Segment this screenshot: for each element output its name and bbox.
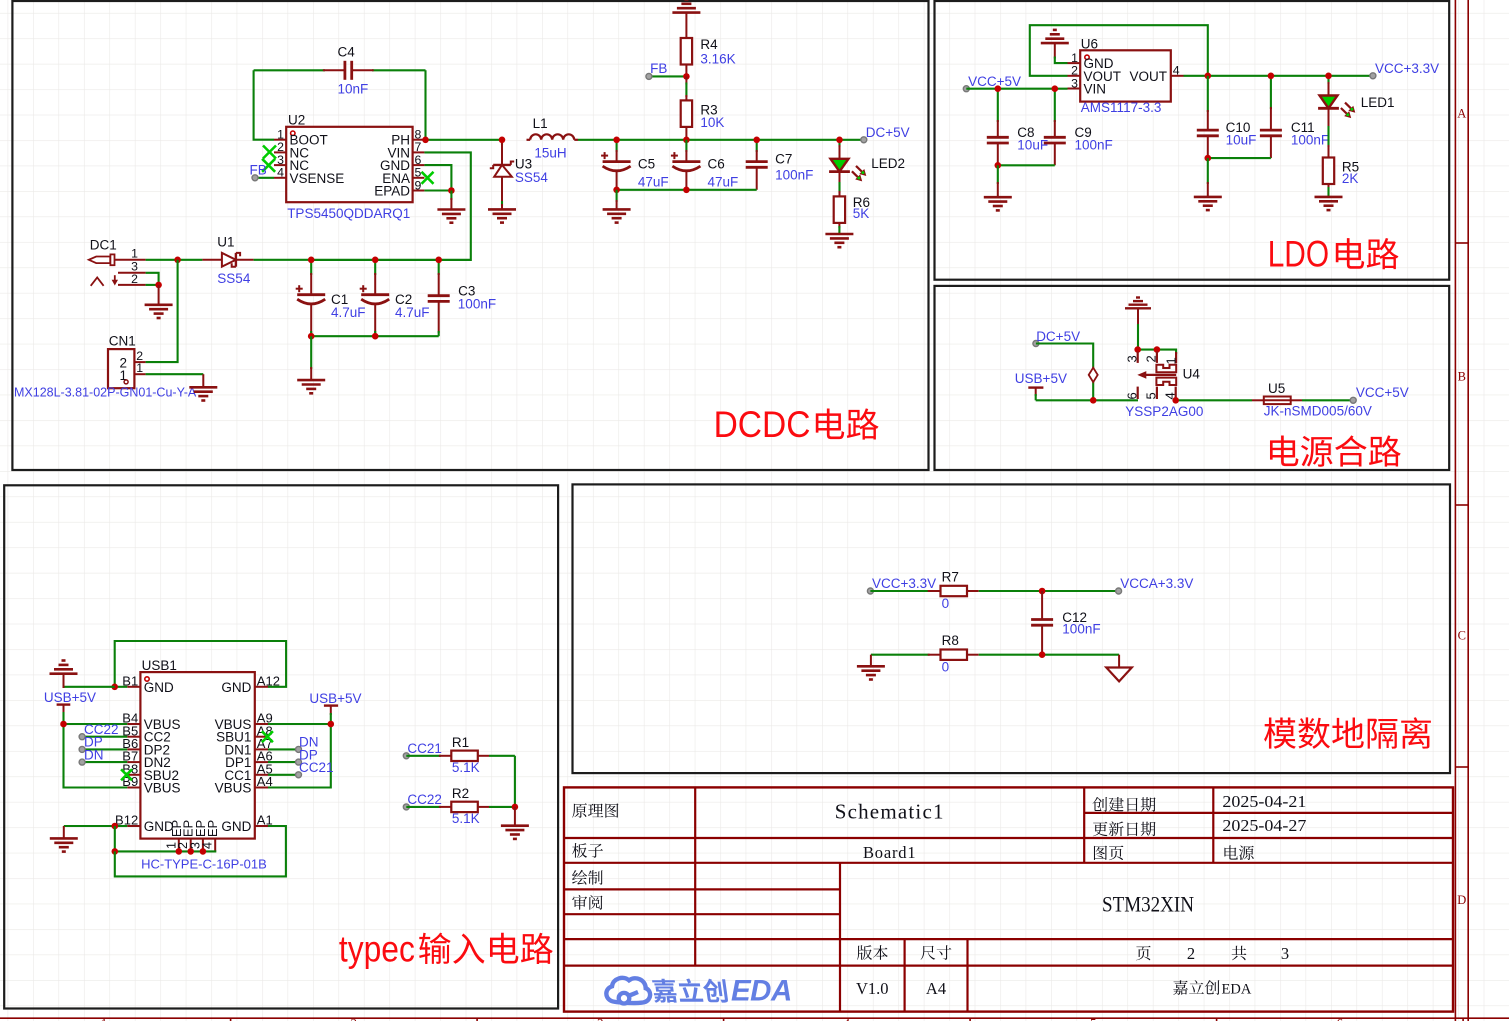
- diode U3 SS54 freewheel: [488, 137, 548, 223]
- net stub DN to A7: [268, 735, 319, 753]
- capacitor C7 100nF: [746, 137, 814, 190]
- svg-text:1: 1: [131, 246, 138, 260]
- svg-text:LDO: LDO: [1268, 234, 1329, 275]
- LED1 indicator: [1318, 73, 1394, 158]
- svg-text:C6: C6: [708, 156, 725, 171]
- svg-text:GND: GND: [221, 819, 251, 834]
- ground below C1: [297, 336, 325, 393]
- svg-text:0: 0: [942, 660, 950, 675]
- svg-text:A: A: [1457, 107, 1466, 121]
- svg-text:LED2: LED2: [871, 156, 905, 171]
- net port VCC+3.3V: [1370, 61, 1439, 79]
- svg-text:R7: R7: [942, 570, 959, 585]
- svg-text:2025-04-21: 2025-04-21: [1222, 792, 1306, 811]
- net label FB on U2 VSENSE: [250, 163, 275, 181]
- net port VCC+5V output: [1350, 385, 1409, 403]
- svg-text:4: 4: [277, 166, 284, 180]
- title block texts left: [572, 803, 951, 960]
- connector DC1 barrel jack: [89, 237, 146, 285]
- svg-text:CC22: CC22: [407, 792, 442, 807]
- svg-text:Board1: Board1: [863, 843, 916, 862]
- svg-text:5: 5: [1090, 1016, 1097, 1021]
- ground at U2 EPAD: [437, 191, 465, 223]
- capacitor C2 4.7uF: [360, 257, 430, 337]
- svg-text:100nF: 100nF: [1291, 133, 1329, 148]
- svg-text:U6: U6: [1081, 36, 1098, 51]
- regulator U6 AMS1117-3.3: [1068, 36, 1184, 115]
- C10 C11 bottom wire and ground: [1194, 155, 1271, 210]
- svg-text:2: 2: [351, 1016, 358, 1021]
- svg-text:47uF: 47uF: [708, 175, 739, 190]
- input rail wire: [254, 259, 471, 261]
- svg-text:B: B: [1458, 370, 1466, 384]
- wire B1/A12 top loop: [111, 641, 286, 690]
- ground below R6: [825, 234, 853, 247]
- no-connect X on B8: [121, 769, 132, 780]
- net stub CC21 to A5: [268, 760, 334, 778]
- svg-text:R8: R8: [942, 633, 959, 648]
- U6 output wire to VCC+3.3V: [1184, 73, 1373, 80]
- resistor R5 2K: [1323, 158, 1359, 197]
- ground left of R8: [857, 655, 885, 680]
- EP pins bottom wire: [112, 826, 217, 855]
- svg-text:VIN: VIN: [1084, 82, 1107, 97]
- svg-text:U1: U1: [217, 235, 234, 250]
- section title power combine: [1270, 435, 1401, 466]
- svg-text:1: 1: [119, 368, 127, 383]
- capacitor C4: [254, 45, 426, 97]
- svg-text:EDA: EDA: [731, 974, 792, 1007]
- svg-text:GND: GND: [221, 680, 251, 695]
- net stub DP to A6: [268, 747, 318, 765]
- resistor R8 0: [871, 633, 1119, 675]
- no-connect X on U2 pin5 ENA: [422, 172, 434, 184]
- wire U4 pin4 to fuse U5: [1172, 397, 1252, 404]
- svg-text:SS54: SS54: [515, 170, 549, 185]
- analog-digital isolation block border: [573, 484, 1451, 773]
- wire DC1 pin1 to diode U1: [146, 257, 203, 264]
- capacitor C11 100nF: [1260, 73, 1329, 159]
- ground at U6 GND pin: [1041, 30, 1069, 63]
- sheet right ruler: [1455, 0, 1468, 1021]
- sheet bottom ruler: [0, 1016, 1509, 1021]
- svg-text:47uF: 47uF: [638, 175, 669, 190]
- wire B12 to ground: [50, 823, 127, 852]
- svg-text:1: 1: [101, 1016, 108, 1021]
- svg-text:EPAD: EPAD: [374, 184, 410, 199]
- svg-text:MX128L-3.81-02P-GN01-Cu-Y-A: MX128L-3.81-02P-GN01-Cu-Y-A: [14, 386, 197, 400]
- svg-text:V1.0: V1.0: [856, 979, 889, 998]
- wire CN1 pin2 to input node: [146, 260, 178, 362]
- svg-text:DC+5V: DC+5V: [1036, 329, 1080, 344]
- JLCEDA logo: [606, 974, 791, 1007]
- svg-text:6: 6: [1125, 392, 1140, 399]
- net port DC+5V: [861, 125, 910, 143]
- svg-text:R4: R4: [700, 37, 718, 52]
- svg-text:100nF: 100nF: [775, 168, 813, 183]
- svg-text:0: 0: [942, 596, 950, 611]
- no-connect X on U2 pin2: [263, 146, 276, 159]
- diode U1 SS54: [202, 235, 253, 286]
- svg-text:USB+5V: USB+5V: [309, 691, 361, 706]
- svg-text:Schematic1: Schematic1: [835, 799, 945, 823]
- resistor R6 5K: [834, 195, 870, 234]
- net port DC+5V input: [1033, 329, 1080, 347]
- capacitor C12 100nF: [1031, 591, 1100, 655]
- VCC+5V rail to U6 VIN: [966, 88, 1067, 90]
- svg-text:VCCA+3.3V: VCCA+3.3V: [1120, 576, 1193, 591]
- svg-text:4: 4: [201, 842, 215, 849]
- wire U2 VIN loop to input rail: [313, 152, 471, 260]
- op-amp U2 TPS5450QDDARQ1: [274, 113, 424, 221]
- wire U6 VOUT feedback loop: [1030, 25, 1208, 76]
- svg-text:FB: FB: [650, 61, 667, 76]
- svg-text:SS54: SS54: [217, 271, 251, 286]
- resistor R7 0: [870, 570, 1118, 612]
- svg-text:C4: C4: [338, 45, 356, 60]
- svg-text:2K: 2K: [1342, 171, 1359, 186]
- net port VCC+5V input: [963, 74, 1021, 92]
- section title typec: [339, 928, 553, 969]
- svg-text:10K: 10K: [700, 115, 724, 130]
- no-connect X on U2 pin3: [262, 159, 275, 172]
- resistor R4 3.16K: [672, 0, 735, 76]
- svg-text:3.16K: 3.16K: [700, 52, 735, 67]
- svg-text:HC-TYPE-C-16P-01B: HC-TYPE-C-16P-01B: [141, 856, 267, 871]
- caps output bottom bus: [613, 187, 756, 194]
- svg-text:VCC+5V: VCC+5V: [1356, 385, 1409, 400]
- LDO block border: [935, 1, 1450, 280]
- svg-text:100nF: 100nF: [458, 297, 496, 312]
- C8 C9 bottom wire and ground: [984, 162, 1055, 210]
- ground below C5: [603, 190, 631, 223]
- ground above U4: [1125, 298, 1151, 350]
- capacitor C10 10uF: [1197, 76, 1257, 158]
- typec block border: [4, 485, 558, 1008]
- ground at DC1 pin2: [145, 285, 173, 318]
- node PH junction: [422, 137, 502, 144]
- capacitor C5 47uF: [601, 137, 669, 190]
- svg-text:FB: FB: [250, 163, 267, 178]
- resistor R1 5.1K: [403, 735, 515, 775]
- section title isolation: [1264, 717, 1431, 749]
- DC+5V output rail: [578, 139, 864, 141]
- net label USB+5V left bar: [44, 690, 96, 724]
- svg-text:L1: L1: [533, 116, 548, 131]
- small JLCEDA name: [1173, 980, 1252, 997]
- title block texts right labels: [1093, 797, 1254, 860]
- wire C4 right to PH node: [424, 70, 426, 140]
- net label USB+5V right bar: [309, 691, 361, 724]
- svg-text:100nF: 100nF: [1062, 622, 1100, 637]
- ground below R5: [1315, 197, 1343, 210]
- svg-text:R1: R1: [452, 735, 469, 750]
- capacitor C9 100nF: [1044, 85, 1113, 165]
- svg-text:STM32XIN: STM32XIN: [1102, 891, 1194, 916]
- svg-text:VBUS: VBUS: [215, 781, 252, 796]
- wire C4 left to U2 pin1: [254, 70, 274, 139]
- LED2 indicator: [829, 137, 905, 197]
- svg-text:typec: typec: [339, 928, 415, 969]
- svg-text:2: 2: [1144, 355, 1159, 362]
- svg-text:3: 3: [1281, 944, 1289, 963]
- svg-text:2: 2: [1187, 944, 1195, 963]
- net stub CC22 to B5: [79, 722, 127, 740]
- no-connect X on A8: [262, 731, 273, 742]
- svg-text:DN: DN: [84, 747, 104, 762]
- wire R1 to R2 junction and ground: [501, 756, 529, 839]
- svg-text:U5: U5: [1268, 381, 1285, 396]
- svg-text:USB+5V: USB+5V: [44, 690, 96, 705]
- transistor U4 YSSP2AG00 dual PMOS: [1125, 346, 1204, 419]
- svg-text:9: 9: [415, 178, 422, 192]
- svg-text:C5: C5: [638, 156, 655, 171]
- svg-text:2: 2: [131, 272, 138, 286]
- svg-text:4: 4: [1173, 64, 1180, 78]
- svg-text:DCDC: DCDC: [714, 404, 811, 445]
- svg-text:A4: A4: [926, 979, 946, 998]
- svg-text:VCC+5V: VCC+5V: [968, 74, 1021, 89]
- svg-text:6: 6: [1337, 1016, 1344, 1021]
- net label FB at divider: [646, 61, 690, 80]
- svg-text:4.7uF: 4.7uF: [395, 305, 430, 320]
- svg-text:CC21: CC21: [407, 741, 442, 756]
- svg-text:4.7uF: 4.7uF: [331, 305, 366, 320]
- svg-text:EDA: EDA: [1222, 982, 1252, 998]
- wire CN1 pin1 to ground: [146, 374, 218, 400]
- svg-text:5.1K: 5.1K: [452, 760, 480, 775]
- svg-text:VCC+3.3V: VCC+3.3V: [1375, 61, 1439, 76]
- inductor L1 15uH: [527, 116, 579, 160]
- connector USB1 HC-TYPE-C-16P-01B: [115, 658, 280, 871]
- fuse U5 JK-nSMD005/60V: [1252, 381, 1372, 419]
- wire USB+5V to B4 B9: [60, 721, 127, 788]
- svg-text:CC21: CC21: [299, 760, 334, 775]
- net stub DN to B7: [79, 747, 127, 765]
- svg-text:YSSP2AG00: YSSP2AG00: [1125, 404, 1203, 419]
- svg-text:VBUS: VBUS: [144, 781, 181, 796]
- section title DCDC: [714, 404, 879, 445]
- svg-text:VCC+3.3V: VCC+3.3V: [872, 576, 936, 591]
- svg-text:D: D: [1457, 893, 1466, 907]
- wire A1 bottom loop: [115, 826, 286, 876]
- title block table: [564, 787, 1453, 1011]
- svg-text:AMS1117-3.3: AMS1117-3.3: [1081, 100, 1162, 115]
- net label USB+5V bar: [1015, 371, 1067, 400]
- ground at B1: [50, 661, 115, 689]
- svg-text:LED1: LED1: [1361, 95, 1395, 110]
- caps bottom bus wire: [308, 333, 439, 340]
- resistor R2 5.1K: [403, 786, 515, 826]
- svg-text:2025-04-27: 2025-04-27: [1222, 816, 1306, 835]
- svg-text:100nF: 100nF: [1075, 138, 1113, 153]
- capacitor C6 47uF: [671, 140, 738, 190]
- connector CN1: [14, 334, 197, 400]
- svg-text:R2: R2: [452, 786, 469, 801]
- power-combine block border: [935, 286, 1450, 470]
- analog ground triangle: [1106, 655, 1132, 682]
- svg-text:10uF: 10uF: [1017, 138, 1048, 153]
- bottom wire USB+5V to U4 pin6: [1036, 397, 1138, 404]
- wire U2 GND to EPAD junction: [424, 165, 454, 194]
- svg-text:DC1: DC1: [90, 237, 117, 252]
- resistor R3 10K: [681, 76, 725, 143]
- capacitor C1 4.7uF: [296, 257, 366, 337]
- svg-text:10nF: 10nF: [338, 82, 369, 97]
- svg-text:U4: U4: [1183, 367, 1201, 382]
- svg-text:TPS5450QDDARQ1: TPS5450QDDARQ1: [287, 206, 410, 221]
- title block values: [835, 792, 1307, 998]
- svg-text:5.1K: 5.1K: [452, 811, 480, 826]
- svg-text:U2: U2: [288, 113, 305, 128]
- wire A9/A4 to USB+5V: [268, 721, 334, 788]
- svg-text:USB1: USB1: [142, 658, 177, 673]
- svg-text:1: 1: [136, 361, 143, 375]
- svg-text:JK-nSMD005/60V: JK-nSMD005/60V: [1264, 403, 1372, 418]
- DCDC block border: [12, 1, 928, 470]
- svg-text:3: 3: [1071, 76, 1078, 90]
- wire DC1 pin3 jog to pin2: [146, 273, 162, 288]
- svg-text:3: 3: [1125, 355, 1140, 362]
- svg-text:USB+5V: USB+5V: [1015, 371, 1067, 386]
- net port VCC+3.3V left: [867, 576, 936, 594]
- svg-text:C7: C7: [775, 152, 792, 167]
- svg-text:EP: EP: [205, 820, 220, 837]
- svg-text:VSENSE: VSENSE: [290, 171, 345, 186]
- svg-text:C: C: [1458, 629, 1466, 643]
- capacitor C8 10uF: [987, 85, 1048, 165]
- svg-text:4: 4: [844, 1016, 851, 1021]
- section title LDO: [1268, 234, 1399, 275]
- svg-text:10uF: 10uF: [1226, 133, 1257, 148]
- svg-text:3: 3: [597, 1016, 604, 1021]
- net port VCCA+3.3V: [1116, 576, 1194, 594]
- svg-text:VOUT: VOUT: [1129, 69, 1167, 84]
- capacitor C3 100nF: [428, 257, 496, 337]
- svg-text:15uH: 15uH: [534, 145, 566, 160]
- svg-text:5: 5: [1144, 392, 1159, 399]
- svg-text:GND: GND: [144, 680, 174, 695]
- svg-text:5K: 5K: [853, 206, 870, 221]
- wire DC+5V to diamond branch: [1036, 344, 1093, 401]
- svg-text:CN1: CN1: [109, 334, 136, 349]
- svg-text:1: 1: [1164, 357, 1179, 364]
- svg-text:DC+5V: DC+5V: [866, 125, 910, 140]
- diamond mark: [1089, 368, 1098, 382]
- net stub DP to B6: [79, 735, 127, 753]
